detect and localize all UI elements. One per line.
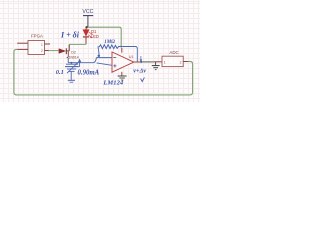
- LED D1: [83, 29, 93, 44]
- wire to op-amp non-inverting input: [97, 63, 112, 65]
- svg-text:1N914: 1N914: [69, 55, 79, 59]
- op-amp U1 triangle: [112, 52, 134, 72]
- svg-text:1: 1: [164, 60, 166, 64]
- wire op-amp output: [134, 61, 142, 63]
- diode D2: [59, 48, 66, 54]
- ground at ADC input wire: [152, 62, 160, 70]
- svg-text:LM124: LM124: [102, 79, 123, 86]
- junction dot at node kink: [98, 54, 101, 57]
- junction node VCC/LED anode: [85, 26, 87, 28]
- ADC box: [162, 50, 183, 66]
- wire branch to node (blue): [67, 58, 69, 63]
- feedback wire ADC output to FPGA (bottom loop): [14, 49, 193, 95]
- svg-text:0.1: 0.1: [56, 69, 64, 76]
- FPGA box U2: [28, 34, 45, 55]
- svg-text:2: 2: [41, 49, 43, 53]
- svg-text:0.90mA: 0.90mA: [78, 70, 100, 77]
- FPGA pin stub left top: [17, 42, 28, 44]
- svg-text:U1: U1: [129, 55, 134, 59]
- ADC output pin stub: [183, 61, 188, 63]
- svg-text:D2: D2: [71, 51, 75, 55]
- svg-text:2: 2: [180, 60, 182, 64]
- wire D2 anode to FPGA pin 2: [48, 50, 58, 52]
- op-amp V+ pin stub: [121, 48, 123, 53]
- FPGA pin stub right bottom (pin 2): [45, 50, 49, 52]
- junction dot output: [140, 61, 142, 63]
- node wire to op-amp inverting input: [68, 58, 112, 63]
- svg-text:ADC: ADC: [169, 50, 178, 55]
- ground under op-amp: [118, 76, 127, 80]
- wire junction branch down to integrator node (red curl): [67, 51, 69, 57]
- junction dot cap top: [70, 62, 72, 64]
- capacitor C1 (sketchy plates): [65, 63, 79, 80]
- svg-text:1: 1: [41, 43, 43, 47]
- annotation voltage arrow: [140, 56, 142, 59]
- svg-text:VCC: VCC: [82, 9, 93, 15]
- ground under C1: [68, 80, 75, 82]
- svg-text:LED: LED: [91, 34, 99, 39]
- ADC input pin stub: [154, 61, 162, 63]
- svg-text:FPGA: FPGA: [31, 34, 43, 39]
- FPGA pin stub left bottom (feedback input): [17, 48, 28, 50]
- R1 right lead / feedback wire to output: [123, 47, 138, 62]
- annotation current arrow 0.9mA: [78, 59, 100, 77]
- svg-text:v+Δv: v+Δv: [133, 67, 146, 74]
- FPGA pin stub right top (pin 1): [45, 43, 51, 45]
- feedback resistor R1 (zigzag): [98, 45, 123, 49]
- wire LED cathode to D2 cathode (stepped): [69, 43, 86, 50]
- wire VCC rail to op-amp V+ supply: [88, 27, 121, 47]
- label D2 / 1N914: [69, 51, 79, 60]
- op-amp V- pin stub: [121, 72, 123, 76]
- svg-text:I + δi: I + δi: [60, 30, 80, 39]
- R1 left lead down to inverting node: [98, 47, 99, 56]
- svg-text:1MΩ: 1MΩ: [104, 40, 115, 45]
- annotation check tick: [141, 77, 145, 81]
- label D1 / LED: [91, 29, 99, 39]
- power flag VCC: [82, 9, 93, 27]
